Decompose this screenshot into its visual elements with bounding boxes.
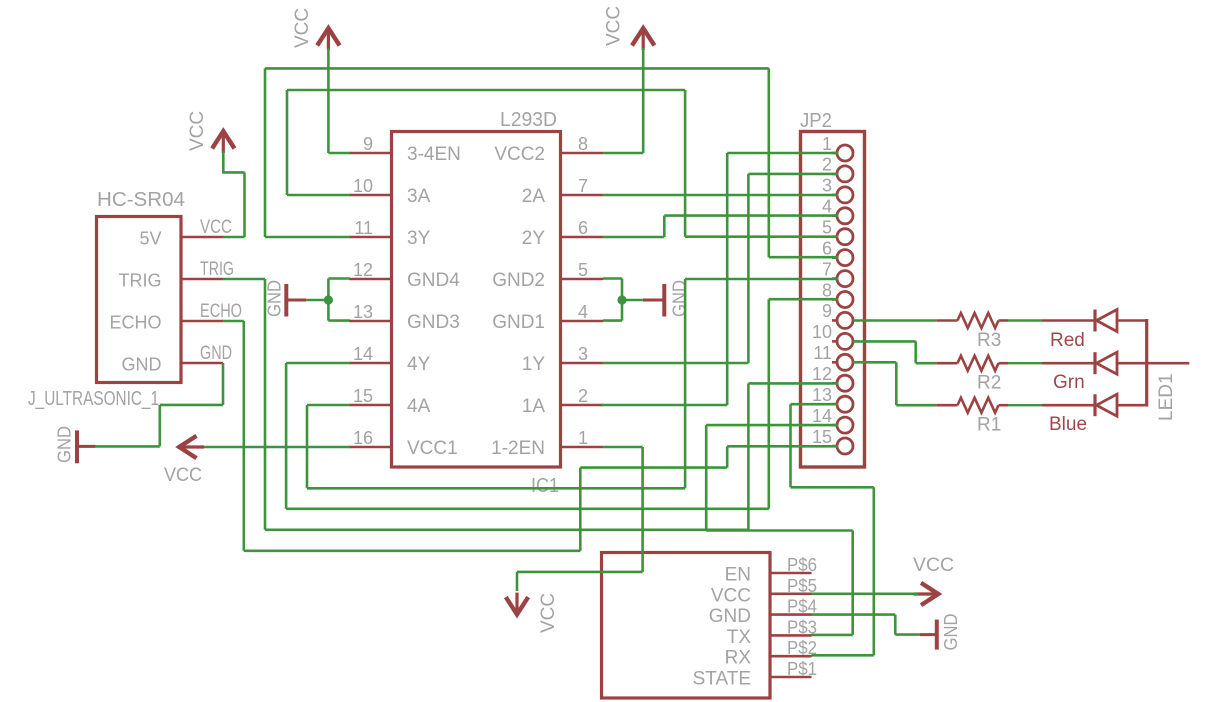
JP2 pin 6 stub <box>832 256 838 259</box>
JP2 pin 12 pad circle <box>837 375 853 391</box>
svg-text:6: 6 <box>822 238 832 258</box>
svg-text:2: 2 <box>822 155 832 175</box>
svg-text:15: 15 <box>812 427 832 447</box>
wire net 3A (pin 10 to JP2 pin 5) <box>287 90 838 237</box>
svg-text:12: 12 <box>812 364 832 384</box>
svg-text:14: 14 <box>353 344 373 364</box>
svg-text:13: 13 <box>812 385 832 405</box>
JP2 pin 12 stub <box>832 382 838 385</box>
svg-text:VCC: VCC <box>292 8 313 48</box>
svg-text:LED1: LED1 <box>1156 373 1177 421</box>
svg-text:L293D: L293D <box>500 109 557 131</box>
svg-text:12: 12 <box>353 260 373 280</box>
JP2 pin 15 pad circle <box>837 438 853 454</box>
JP2 pin 10 stub <box>832 340 838 343</box>
bluetooth module body <box>602 553 771 699</box>
svg-text:4A: 4A <box>407 396 431 417</box>
wire net TRIG (HC-SR04 to JP2 pin 12) <box>223 279 838 530</box>
L293D pin 4 stub <box>560 320 603 323</box>
resistor R3 lead left <box>936 319 957 322</box>
svg-text:1Y: 1Y <box>522 354 546 375</box>
wire R3-LED <box>1008 319 1042 321</box>
wire net RX (module to JP2 pin 13) <box>791 404 874 655</box>
JP2 pin 1 stub <box>832 152 838 155</box>
svg-text:9: 9 <box>822 301 832 321</box>
wire net TX (module to JP2 pin 14) <box>706 425 853 635</box>
svg-text:VCC: VCC <box>200 217 232 238</box>
svg-text:GND2: GND2 <box>492 270 545 291</box>
wire net GND (GND2/GND1) <box>603 279 643 321</box>
svg-text:TRIG: TRIG <box>119 271 162 291</box>
JP2 pin 5 stub <box>832 235 838 238</box>
svg-text:3: 3 <box>822 176 832 196</box>
svg-text:5: 5 <box>822 218 832 238</box>
svg-text:GND: GND <box>264 280 285 317</box>
L293D pin 6 stub <box>560 236 603 239</box>
svg-text:GND: GND <box>940 614 961 651</box>
module pin P$2 stub <box>770 655 812 658</box>
resistor R1 lead left <box>936 404 957 407</box>
GND symbol (below HC-SR04) <box>75 430 79 463</box>
svg-text:1A: 1A <box>522 396 546 417</box>
svg-text:6: 6 <box>578 218 588 238</box>
JP2 pin 5 pad circle <box>837 229 853 245</box>
svg-text:VCC: VCC <box>604 6 625 46</box>
GND symbol (right of L293D) <box>662 284 666 317</box>
wire net VCC (1-2EN pin 1) <box>517 447 643 591</box>
wire net 3Y (pin 11 to JP2 pin 6) <box>265 68 838 257</box>
LED lead Red cathode <box>1117 319 1147 322</box>
svg-text:2: 2 <box>578 386 588 406</box>
JP2 pin 2 stub <box>832 173 838 176</box>
svg-text:GND1: GND1 <box>492 312 545 333</box>
L293D pin 13 stub <box>349 320 392 323</box>
svg-text:11: 11 <box>813 343 832 363</box>
JP2 pin 10 pad circle <box>837 333 853 349</box>
module pin P$5 stub <box>770 592 812 595</box>
LED lead Red <box>1042 319 1095 322</box>
svg-text:Blue: Blue <box>1049 414 1087 435</box>
svg-text:3-4EN: 3-4EN <box>407 144 461 165</box>
L293D pin 12 stub <box>349 278 392 281</box>
JP2 pin 3 pad circle <box>837 187 853 203</box>
VCC symbol (above 3-4EN) <box>317 28 339 45</box>
JP2 pin 11 stub <box>832 361 838 364</box>
svg-text:3Y: 3Y <box>407 228 431 249</box>
svg-text:VCC: VCC <box>187 111 208 151</box>
HC-SR04 pin 5V stub <box>181 236 223 239</box>
svg-text:GND: GND <box>709 606 751 627</box>
HC-SR04 pin ECHO stub <box>181 320 223 323</box>
wire net VCC (VCC2 pin 8) <box>603 48 643 153</box>
JP2 pin 11 pad circle <box>837 354 853 370</box>
JP2 pin 4 stub <box>832 214 838 217</box>
svg-text:2A: 2A <box>522 186 546 207</box>
JP2 pin 3 stub <box>832 194 838 197</box>
svg-text:VCC: VCC <box>711 585 751 606</box>
driver IC L293D body <box>392 132 561 468</box>
JP2 pin 1 pad circle <box>837 145 853 161</box>
wire net GND (module P$4) <box>812 615 921 635</box>
LED lead Blue cathode <box>1117 404 1147 407</box>
JP2 pin 14 pad circle <box>837 417 853 433</box>
JP2 pin 15 stub <box>832 445 838 448</box>
svg-text:1: 1 <box>822 134 832 154</box>
svg-text:11: 11 <box>354 218 373 238</box>
svg-text:R1: R1 <box>977 415 1001 436</box>
JP2 pin 9 stub <box>832 319 838 322</box>
LED Red <box>1093 310 1096 332</box>
svg-text:4Y: 4Y <box>407 354 431 375</box>
svg-text:TRIG: TRIG <box>200 259 234 280</box>
svg-text:10: 10 <box>812 322 832 342</box>
VCC symbol (above VCC2) <box>632 28 654 45</box>
LED lead Grn cathode <box>1117 362 1147 365</box>
wire net 4Y (pin 14 to JP2 pin 8) <box>286 299 838 509</box>
wire net 2A (pin 7 to JP2 pin 3) <box>603 194 838 197</box>
header JP2 body <box>801 132 865 468</box>
svg-text:VCC1: VCC1 <box>407 438 458 459</box>
L293D pin 3 stub <box>560 362 603 365</box>
svg-text:1-2EN: 1-2EN <box>491 438 545 459</box>
HC-SR04 pin TRIG stub <box>181 278 223 281</box>
svg-text:Grn: Grn <box>1053 372 1085 393</box>
JP2 pin 4 pad circle <box>837 208 853 224</box>
junction (GND2/GND1) <box>617 295 626 304</box>
wire R1-LED <box>1008 404 1042 406</box>
svg-text:16: 16 <box>353 428 373 448</box>
svg-text:13: 13 <box>353 302 373 322</box>
svg-text:GND: GND <box>122 355 162 375</box>
svg-text:9: 9 <box>363 134 373 154</box>
svg-text:14: 14 <box>812 406 832 426</box>
JP2 pin 14 stub <box>832 424 838 427</box>
JP2 pin 8 pad circle <box>837 292 853 308</box>
svg-text:VCC: VCC <box>164 465 202 486</box>
svg-text:R2: R2 <box>977 373 1001 394</box>
VCC symbol (down arrow, 1-2EN) <box>506 597 528 614</box>
svg-text:Red: Red <box>1050 330 1085 351</box>
LED Blue <box>1093 394 1096 416</box>
svg-text:3: 3 <box>578 344 588 364</box>
L293D pin 8 stub <box>560 152 603 155</box>
svg-text:GND: GND <box>200 343 232 364</box>
svg-text:R3: R3 <box>977 330 1001 351</box>
wire net ECHO (HC-SR04 to JP2 pin 15) <box>223 321 838 551</box>
resistor R1 <box>958 398 999 413</box>
VCC symbol (right arrow, module) <box>921 583 938 605</box>
resistor R3 <box>958 313 999 328</box>
svg-text:ECHO: ECHO <box>200 301 242 322</box>
svg-text:4: 4 <box>578 302 588 322</box>
svg-text:IC1: IC1 <box>531 475 559 497</box>
svg-text:VCC: VCC <box>913 555 954 576</box>
svg-text:15: 15 <box>353 386 373 406</box>
svg-text:RX: RX <box>725 648 752 669</box>
JP2 pin 7 stub <box>832 277 838 280</box>
JP2 pin 2 pad circle <box>837 166 853 182</box>
resistor R2 lead left <box>936 362 957 365</box>
JP2 pin 9 pad circle <box>837 312 853 328</box>
JP2 pin 6 pad circle <box>837 250 853 266</box>
svg-text:STATE: STATE <box>693 669 751 690</box>
wire R2-LED <box>1008 362 1042 364</box>
svg-text:JP2: JP2 <box>800 110 832 132</box>
ultrasonic sensor HC-SR04 body <box>97 217 182 383</box>
svg-text:7: 7 <box>578 176 588 196</box>
svg-text:3A: 3A <box>407 186 431 207</box>
L293D pin 9 stub <box>349 152 392 155</box>
svg-text:7: 7 <box>822 259 832 279</box>
svg-text:ECHO: ECHO <box>109 313 161 333</box>
wire net VCC (HC-SR04 to arrow) <box>223 151 245 237</box>
svg-text:GND: GND <box>54 426 75 463</box>
GND symbol (left of L293D) <box>284 284 288 317</box>
L293D pin 1 stub <box>560 446 603 449</box>
svg-text:P$6: P$6 <box>787 555 817 575</box>
junction (GND4/GND3) <box>324 295 333 304</box>
svg-text:2Y: 2Y <box>522 228 546 249</box>
resistor R1 lead right <box>999 404 1009 407</box>
resistor R2 lead right <box>999 362 1009 365</box>
svg-text:8: 8 <box>822 280 832 300</box>
JP2 pin 7 pad circle <box>837 271 853 287</box>
wire net GND (GND4/GND3) <box>306 279 350 321</box>
svg-text:HC-SR04: HC-SR04 <box>97 189 185 211</box>
wire net 2Y (pin 6 to JP2 pin 4) <box>603 216 838 237</box>
JP2 pin 13 pad circle <box>837 396 853 412</box>
JP2 pin 13 stub <box>832 403 838 406</box>
svg-text:5: 5 <box>578 260 588 280</box>
VCC symbol (left, HC-SR04) <box>212 131 234 148</box>
wire net VCC (3-4EN pin 9) <box>328 48 350 153</box>
svg-text:4: 4 <box>822 197 832 217</box>
resistor R3 lead right <box>999 319 1009 322</box>
HC-SR04 pin GND stub <box>181 362 223 365</box>
wire JP2 pin 11 to R1 <box>853 362 936 405</box>
svg-text:TX: TX <box>727 627 752 648</box>
LED lead Grn <box>1042 362 1095 365</box>
GND symbol (bottom right) <box>935 620 939 650</box>
module pin P$6 stub <box>770 572 812 575</box>
svg-text:GND3: GND3 <box>407 312 460 333</box>
svg-text:GND4: GND4 <box>407 270 460 291</box>
svg-text:J_ULTRASONIC_1: J_ULTRASONIC_1 <box>28 388 159 410</box>
L293D pin 15 stub <box>349 404 392 407</box>
JP2 pin 8 stub <box>832 298 838 301</box>
wire net GND (HC-SR04) <box>96 363 223 446</box>
svg-text:5V: 5V <box>139 229 161 249</box>
wire net 1Y (pin 3 to JP2 pin 2) <box>603 174 838 363</box>
svg-text:VCC: VCC <box>538 593 559 633</box>
svg-text:10: 10 <box>353 176 373 196</box>
L293D pin 14 stub <box>349 362 392 365</box>
L293D pin 10 stub <box>349 194 392 197</box>
module pin P$4 stub <box>770 613 812 616</box>
module pin P$1 stub <box>770 676 812 679</box>
module pin P$3 stub <box>770 634 812 637</box>
LED lead Blue <box>1042 404 1095 407</box>
svg-text:P$1: P$1 <box>787 659 817 679</box>
LED1 anode line to edge <box>1147 362 1190 365</box>
wire JP2 pin 9 to R3 <box>853 319 936 322</box>
svg-text:1: 1 <box>578 428 588 448</box>
VCC symbol (left arrow, VCC1) <box>179 436 196 458</box>
LED Grn <box>1093 352 1096 374</box>
L293D pin 16 stub <box>349 446 392 449</box>
wire net 4A (pin 15 to JP2 pin 7) <box>307 279 838 488</box>
svg-text:8: 8 <box>578 134 588 154</box>
svg-text:EN: EN <box>725 565 751 586</box>
L293D pin 7 stub <box>560 194 603 197</box>
resistor R2 <box>958 356 999 371</box>
wire net VCC (VCC1 pin 16) <box>204 446 350 449</box>
wire net VCC (module P$5) <box>812 592 919 595</box>
wire JP2 pin 10 to R2 <box>853 341 936 363</box>
L293D pin 5 stub <box>560 278 603 281</box>
svg-text:VCC2: VCC2 <box>494 144 545 165</box>
LED1 common bus <box>1145 319 1148 407</box>
wire net 1A (pin 2 to JP2 pin 1) <box>601 153 838 405</box>
L293D pin 11 stub <box>349 236 392 239</box>
L293D pin 2 stub <box>560 404 603 407</box>
